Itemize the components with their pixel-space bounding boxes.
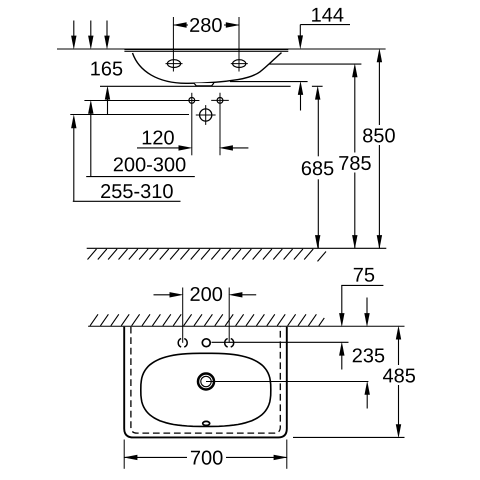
dim 685 bbox=[317, 98, 319, 248]
dim 850 bbox=[378, 61, 380, 249]
extension line to left fixing hole bbox=[84, 100, 199, 102]
dim 850 label bbox=[363, 128, 395, 142]
dim 785 label bbox=[339, 156, 371, 170]
drain (front view) bbox=[198, 374, 214, 390]
floor line (top view) bbox=[87, 247, 387, 249]
basin outer outline (front view) bbox=[124, 327, 287, 438]
dim 165 label bbox=[91, 61, 122, 75]
floor hatching bbox=[88, 249, 327, 261]
dim 200 (front view) bbox=[154, 294, 172, 296]
dim 144 label bbox=[312, 8, 343, 22]
dim 255-310 lower arrow and shelf bbox=[73, 127, 75, 202]
drain extension line (front view) bbox=[206, 381, 368, 383]
overflow slot bbox=[203, 421, 210, 425]
dim 235 label bbox=[353, 348, 385, 362]
dim 785 bbox=[354, 76, 356, 249]
wall line (front view) bbox=[88, 325, 404, 327]
hidden mounting outline (dashed) bbox=[131, 327, 280, 433]
faucet hole oval right (side view) bbox=[233, 60, 246, 68]
dim 485 label bbox=[383, 368, 415, 382]
dim 280 line bbox=[173, 24, 239, 26]
faucet plane extension line (front view) bbox=[212, 341, 349, 343]
faucet hole right (front view, hidden) bbox=[225, 339, 234, 347]
dim 700 bbox=[123, 440, 125, 469]
dim 235 bbox=[366, 298, 368, 316]
dim 255-310 label bbox=[101, 184, 173, 198]
dim 120 label bbox=[143, 130, 174, 144]
wall mount arrows (3 down arrows) bbox=[71, 21, 110, 50]
inner bowl (front view) bbox=[141, 353, 271, 426]
extension line 165/685 (basin underside) bbox=[100, 85, 291, 87]
dim 120 bbox=[137, 147, 181, 149]
faucet hole oval left (side view) bbox=[167, 60, 180, 68]
fixing hole right (side view) bbox=[217, 98, 223, 104]
dim 144 bracket bbox=[300, 24, 350, 26]
dim 200-300 lower arrow and shelf bbox=[90, 112, 92, 177]
dim 700 label bbox=[191, 451, 223, 465]
extension line 144 (bowl lowest front contour) bbox=[230, 81, 308, 83]
under-rim line bbox=[124, 51, 288, 52]
dim 144 lower arrow bbox=[300, 93, 302, 110]
dim 200-300 label bbox=[114, 157, 186, 171]
extension line to drain (side view) bbox=[70, 114, 189, 116]
dim 165 lower arrow bbox=[107, 98, 109, 114]
drain boss bbox=[194, 83, 214, 86]
bowl curve (side view) bbox=[133, 53, 282, 84]
wall reference line (top view) bbox=[57, 48, 386, 50]
basin bottom extension line bbox=[293, 436, 405, 438]
drain hole (side view) bbox=[200, 109, 212, 121]
basin rim thick bar (side view) bbox=[124, 49, 288, 51]
faucet hole left (front view, hidden) bbox=[178, 339, 187, 347]
dim 280 label bbox=[190, 18, 222, 32]
dim 485 bbox=[398, 338, 400, 426]
wall hatching (front view) bbox=[90, 314, 324, 326]
dim 75 bbox=[341, 284, 383, 286]
dim 685 label bbox=[302, 161, 334, 175]
extension line faucet plane (side view) bbox=[269, 63, 361, 65]
dim 75 label bbox=[354, 268, 374, 282]
center fixing hole (front view) bbox=[202, 339, 210, 347]
fixing hole left (side view) bbox=[189, 98, 195, 104]
dim 200 label bbox=[191, 287, 223, 301]
